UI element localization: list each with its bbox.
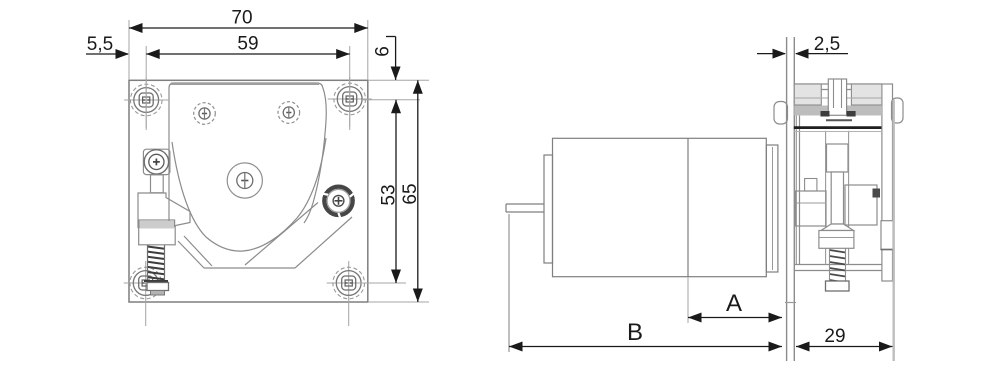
corner screw bottom-right bbox=[327, 261, 371, 311]
side spring rails bbox=[830, 248, 846, 281]
gear block right bbox=[845, 185, 877, 225]
gear block left bbox=[796, 191, 827, 226]
gearbox upper left block bbox=[794, 84, 821, 105]
gearbox center tab bbox=[828, 79, 846, 115]
spring housing body bbox=[139, 227, 176, 245]
side spring foot bbox=[826, 281, 850, 291]
gearbox shaded band bbox=[794, 106, 882, 116]
plate lower tick bbox=[785, 302, 796, 304]
extension line plate left edge bbox=[128, 20, 130, 80]
svg-text:53: 53 bbox=[378, 184, 399, 205]
gearbox bracket column bbox=[794, 84, 892, 281]
dimension 53 bbox=[378, 100, 401, 283]
dimension 29 bbox=[796, 326, 893, 352]
housing screw upper-right bbox=[278, 102, 300, 124]
svg-text:59: 59 bbox=[237, 34, 258, 55]
gearbox upper right block bbox=[851, 84, 882, 105]
adjuster screw head bbox=[827, 144, 849, 172]
pump bell curve bbox=[172, 138, 326, 251]
dimension 59 bbox=[146, 34, 350, 60]
belt left chamfer second line bbox=[184, 236, 212, 266]
gear axis lines bbox=[794, 97, 828, 99]
housing screw upper-left bbox=[194, 103, 216, 125]
mounting plate edge left face bbox=[786, 37, 788, 361]
extension line plate top edge bbox=[368, 79, 429, 81]
housing slot verticals bbox=[825, 131, 827, 265]
bottom-right screw centerline extension bbox=[348, 311, 350, 326]
adjuster block bbox=[819, 231, 854, 249]
tension spring coils bbox=[148, 247, 165, 285]
mounting plate edge right face bbox=[793, 37, 795, 361]
flange inner line bbox=[772, 147, 774, 270]
tab feet dark marks bbox=[821, 111, 856, 117]
corner screw top-left bbox=[124, 78, 168, 128]
svg-text:6: 6 bbox=[373, 46, 394, 57]
dimension 6 bbox=[373, 37, 401, 81]
tensioner pivot screw bbox=[143, 149, 170, 174]
spring foot plate bbox=[144, 280, 168, 282]
dimension 65 bbox=[400, 80, 423, 302]
motor shaft bbox=[506, 204, 544, 212]
motor/gear divider bbox=[687, 138, 689, 276]
motor end cap bbox=[544, 155, 553, 263]
adjuster flare bbox=[821, 224, 854, 231]
svg-text:29: 29 bbox=[824, 326, 845, 347]
svg-text:65: 65 bbox=[400, 183, 421, 204]
extension line bracket right bbox=[893, 100, 895, 361]
dimension B bbox=[509, 319, 782, 352]
motor flange bbox=[766, 145, 778, 272]
thick separator line bbox=[794, 126, 882, 129]
svg-text:5,5: 5,5 bbox=[87, 34, 113, 55]
belt roller bbox=[323, 187, 354, 218]
corner screw top-right bbox=[328, 77, 372, 127]
left mounting boss bbox=[774, 102, 788, 125]
svg-text:70: 70 bbox=[231, 8, 252, 29]
belt tangent to roller bbox=[295, 217, 352, 268]
mounting plate (front) bbox=[129, 80, 368, 302]
side spring coils bbox=[830, 250, 846, 283]
extension line shaft end bbox=[508, 214, 510, 352]
bottom-left screw centerline extension bbox=[145, 311, 147, 326]
dimension 70 bbox=[129, 8, 368, 34]
extension line top screw axis bbox=[362, 99, 420, 101]
adjuster screw stem bbox=[831, 172, 843, 224]
tensioner stem bbox=[151, 175, 164, 193]
spring side rails bbox=[148, 245, 165, 281]
extension line left screw axis bbox=[145, 46, 147, 130]
dimension 2,5 bbox=[757, 34, 848, 59]
belt bottom edge bbox=[204, 267, 295, 269]
spring housing cap bbox=[139, 220, 175, 227]
right mounting boss bbox=[892, 98, 904, 123]
spring housing shading bbox=[140, 221, 175, 229]
dimension A bbox=[688, 290, 782, 323]
extension line plate bottom edge bbox=[368, 301, 429, 303]
pump housing outline bbox=[169, 83, 326, 223]
corner screw bottom-left bbox=[124, 261, 168, 311]
column step bbox=[881, 221, 893, 250]
belt inner edge bbox=[245, 203, 318, 266]
tensioner lever bbox=[138, 193, 190, 228]
center rotor screw bbox=[227, 163, 262, 198]
motor body bbox=[553, 138, 767, 276]
bar under tab bbox=[826, 119, 852, 121]
extension line bottom screw axis bbox=[358, 282, 406, 284]
svg-text:B: B bbox=[627, 319, 643, 346]
svg-text:2,5: 2,5 bbox=[814, 34, 840, 55]
extension line gear divider bbox=[687, 277, 689, 323]
belt left chamfer bbox=[178, 241, 204, 268]
dimension 5,5 bbox=[86, 34, 129, 59]
extension line plate right edge bbox=[367, 20, 369, 80]
svg-text:A: A bbox=[726, 290, 742, 317]
extension line right screw axis bbox=[349, 46, 351, 130]
